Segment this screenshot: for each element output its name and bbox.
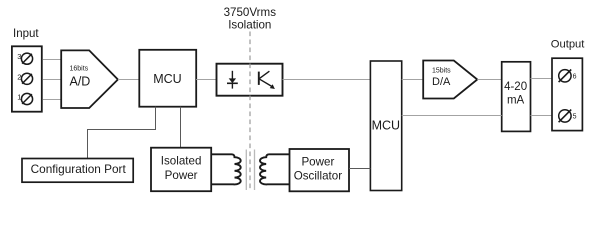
svg-text:3750Vrms: 3750Vrms [224, 6, 277, 19]
terminal 3 [21, 53, 32, 64]
svg-text:D/A: D/A [432, 76, 451, 88]
wire 4-20mA to terminal 6 [531, 78, 553, 80]
svg-text:5: 5 [573, 114, 577, 121]
MCU U4 (output side) [370, 61, 401, 191]
svg-text:15bits: 15bits [432, 67, 451, 74]
MCU U2 (input side) [139, 50, 196, 107]
svg-text:Output: Output [551, 39, 585, 51]
wire MCU U4 to D/A [402, 79, 424, 81]
wire terminal 3 to A/D [43, 59, 62, 61]
svg-text:3: 3 [17, 52, 21, 61]
terminal 1 [21, 93, 32, 104]
terminal 2 [21, 73, 32, 84]
wire 4-20mA to terminal 5 [531, 115, 553, 117]
optocoupler U3 [217, 64, 283, 96]
wire terminal 1 to A/D [43, 99, 62, 101]
transformer T1 secondary winding [260, 154, 290, 184]
wire power oscillator to MCU U4 [349, 168, 370, 170]
transformer T1 primary winding [211, 154, 241, 184]
svg-text:4-20: 4-20 [504, 81, 527, 93]
svg-text:Configuration Port: Configuration Port [31, 162, 127, 176]
svg-text:Power: Power [301, 155, 334, 168]
svg-text:MCU: MCU [153, 72, 181, 86]
wire terminal 2 to A/D [43, 79, 62, 81]
4-20 mA output stage [502, 62, 531, 132]
output terminal block [552, 58, 582, 130]
LED inside optocoupler [227, 71, 238, 89]
wire A/D to MCU U2 [118, 79, 139, 81]
svg-text:Isolated: Isolated [161, 154, 202, 167]
svg-text:Isolation: Isolation [228, 19, 271, 32]
wire MCU U2 to configuration port [88, 107, 156, 159]
input terminal block [12, 46, 42, 111]
wire MCU U2 to optocoupler [196, 79, 216, 81]
transformer T1 core lines [245, 150, 247, 191]
svg-text:1: 1 [17, 93, 21, 102]
configuration port [22, 159, 133, 183]
terminal 6 [559, 70, 572, 83]
svg-text:2: 2 [17, 72, 21, 81]
isolated power supply [151, 148, 211, 192]
svg-text:MCU: MCU [372, 119, 400, 133]
power oscillator [290, 149, 350, 191]
svg-text:6: 6 [573, 74, 577, 81]
wire optocoupler to MCU U4 [283, 79, 371, 81]
A/D converter [61, 50, 118, 108]
wire D/A to 4-20mA stage [477, 79, 501, 81]
svg-text:mA: mA [507, 94, 525, 106]
svg-text:Power: Power [165, 169, 198, 182]
D/A converter [423, 61, 477, 99]
svg-text:16bits: 16bits [70, 65, 89, 72]
wire MCU U2 to isolated power [180, 107, 182, 148]
wire MCU U4 to 4-20mA (lower) [402, 115, 502, 117]
svg-text:A/D: A/D [70, 74, 91, 88]
svg-text:Oscillator: Oscillator [294, 169, 342, 182]
isolation barrier dashed line [249, 32, 251, 191]
phototransistor inside optocoupler [259, 71, 275, 89]
svg-text:Input: Input [13, 28, 39, 40]
terminal 5 [559, 110, 572, 123]
